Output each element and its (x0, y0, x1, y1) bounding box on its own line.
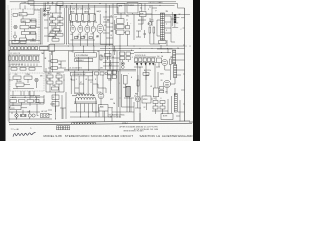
terminal box top (28, 1, 34, 4)
labels upper mid 2 (104, 12, 132, 38)
capacitor C15 (151, 16, 154, 26)
relay box K1 (49, 44, 55, 55)
svg-text:220: 220 (57, 79, 60, 81)
wire T1 secondary (157, 16, 174, 46)
wire mid horizontal bus (9, 10, 185, 123)
driver box U1 (140, 12, 147, 17)
wire control panel leads (27, 10, 41, 40)
resistor R31 (153, 27, 155, 33)
svg-text:20: 20 (105, 12, 107, 14)
wire channel B verticals (71, 71, 121, 107)
choke L1 (157, 58, 162, 67)
signature handwritten (13, 132, 36, 136)
wire bottom-left label row (9, 91, 44, 108)
triode section circle V5b (148, 18, 152, 25)
svg-text:+: + (128, 73, 129, 75)
wire extra preamp horizontals (9, 14, 100, 47)
svg-text:T2: T2 (177, 48, 179, 50)
svg-text:BIAS ADJ: BIAS ADJ (76, 59, 84, 62)
power transformer T3 lamination (74, 102, 97, 104)
svg-text:130: 130 (52, 85, 55, 87)
function selector S3 cluster (49, 18, 63, 42)
wire coil top area (93, 84, 106, 93)
resistor block R20 stack (124, 22, 130, 46)
svg-text:CH: CH (157, 56, 159, 58)
potentiometer VR7 TONE B (24, 76, 32, 82)
svg-text:.5: .5 (76, 79, 77, 81)
bias box (153, 88, 159, 100)
tube V4 6AN8 (91, 21, 95, 40)
tube V7 rectifier 5Y3 (98, 93, 104, 105)
svg-text:.25: .25 (138, 20, 140, 22)
wire pair horizontals chB (71, 80, 93, 88)
svg-text:MODEL 9-88 STEREOPHONIC SOUN: MODEL 9-88 STEREOPHONIC SOUND AMPLIFIER … (44, 134, 134, 138)
svg-text:50/50: 50/50 (108, 80, 112, 82)
svg-text:40: 40 (140, 8, 142, 10)
resistor R60 (170, 59, 172, 65)
svg-text:.05: .05 (110, 16, 112, 18)
tube V8 EL84 (163, 80, 170, 94)
svg-text:.002: .002 (70, 34, 73, 36)
wire jack leads (41, 3, 51, 45)
capacitor C60 block (52, 95, 59, 112)
svg-text:P: P (156, 11, 157, 13)
switch S5 (35, 78, 38, 88)
wire driver leads (134, 3, 152, 40)
fuse F1 (21, 114, 27, 117)
potentiometer VR2 BASS (21, 19, 30, 25)
resistor R13 (82, 15, 84, 21)
power transformer T3 primary coils (72, 94, 96, 104)
svg-text:470: 470 (104, 25, 107, 27)
wire upper-mid extra (103, 17, 116, 38)
wire bottom left (9, 92, 66, 119)
svg-text:TONE: TONE (26, 74, 30, 76)
wire below coils fill (93, 104, 99, 118)
filter capacitor row C30-C33 (134, 57, 156, 62)
label component values (10, 7, 183, 117)
wire tube row verticals (68, 4, 106, 47)
note box (161, 114, 173, 120)
svg-text:1K: 1K (110, 35, 112, 37)
svg-text:SANCTION LH ALCESTER ENGLAND: SANCTION LH ALCESTER ENGLAND (140, 134, 193, 138)
tube V1 6AV6 (70, 21, 75, 40)
svg-text:V8: V8 (161, 80, 163, 82)
resistor stack R61 (160, 87, 164, 93)
svg-text:.01: .01 (85, 34, 87, 36)
svg-text:150: 150 (101, 56, 104, 58)
svg-text:B: B (131, 77, 132, 79)
resistor R30 (149, 27, 151, 33)
input jack J1 (43, 9, 46, 12)
svg-text:6AV6: 6AV6 (70, 11, 74, 14)
resistor R14 (88, 15, 90, 21)
svg-text:SPKR: SPKR (143, 99, 148, 101)
svg-text:680: 680 (52, 37, 55, 39)
capacitor C40 row (9, 64, 43, 71)
speaker terminal block TB2 (172, 12, 179, 27)
svg-text:5H: 5H (161, 56, 163, 58)
wire bottom mid fill (48, 104, 66, 119)
svg-text:.01: .01 (78, 34, 80, 36)
svg-text:12: 12 (90, 82, 92, 84)
svg-text:OUTPUT TRANS: OUTPUT TRANS (149, 1, 164, 4)
svg-text:0.05: 0.05 (58, 21, 61, 23)
svg-text:8: 8 (95, 79, 96, 81)
resistor R12 (76, 15, 78, 21)
stamp table (57, 126, 70, 130)
wire right-mid extra horizontals (100, 45, 185, 53)
boxes inside panel lower (20, 38, 36, 43)
tube V2 6AV6 (78, 21, 83, 40)
terminal board TB1 (127, 3, 138, 13)
svg-text:LINE USE VTVM: LINE USE VTVM (109, 117, 122, 119)
svg-text:+: + (131, 23, 132, 25)
capacitor C16 (144, 30, 146, 38)
speaker SP1 (135, 96, 141, 108)
svg-text:270: 270 (165, 92, 168, 94)
svg-text:WWW STEREO PU NET: WWW STEREO PU NET (124, 131, 144, 133)
svg-text:L 174 2: L 174 2 (122, 123, 128, 125)
phase inverter cluster (46, 68, 64, 92)
extra pots inside panel A (12, 14, 36, 44)
svg-text:VOL: VOL (19, 14, 22, 16)
jack pair J3 (121, 62, 124, 68)
wire bottom border lines (9, 121, 192, 125)
svg-text:SP: SP (179, 14, 181, 16)
wire below chB panel (24, 91, 34, 100)
heater chain humps (72, 122, 96, 124)
balance pot VR5 (48, 60, 66, 70)
svg-text:.02 100K .005 470K .02 6.: .02 100K .005 470K .02 6.8K (69, 9, 90, 11)
svg-text:40: 40 (53, 97, 55, 99)
svg-text:LOUDNESS SW: LOUDNESS SW (72, 74, 86, 76)
wire B+ top bus (10, 2, 178, 8)
coupling caps under tubes (75, 36, 99, 39)
speaker box SP2 (142, 96, 151, 110)
capacitor C71 (113, 46, 115, 55)
wire mid verticals (106, 4, 113, 47)
svg-text:.02: .02 (57, 32, 59, 34)
input block AUX (57, 2, 63, 10)
wire T2 leads (170, 54, 185, 84)
wire selector leads (48, 5, 67, 44)
svg-text:B: B (131, 50, 132, 52)
switch S7 power (28, 114, 35, 117)
svg-text:6BQ5: 6BQ5 (48, 73, 52, 75)
dense cluster mid (107, 71, 116, 79)
wire right bus (184, 8, 186, 121)
capacitor C21 C22 (107, 20, 113, 32)
tube V5 6AQ5 output (97, 14, 103, 44)
svg-text:220: 220 (48, 79, 51, 81)
switch box S4 (117, 3, 125, 13)
svg-text:8: 8 (166, 30, 167, 32)
resistor R72 (137, 75, 139, 92)
svg-text:.5: .5 (132, 57, 133, 59)
wire right-of-ladder fills (157, 33, 175, 53)
svg-text:6BQ5: 6BQ5 (57, 73, 61, 75)
svg-text:VOL: VOL (15, 74, 18, 76)
svg-text:.01 .01 .01 .01 .01: .01 .01 .01 .01 .01 (11, 64, 24, 66)
winding label box (75, 53, 97, 62)
svg-text:AFTER VOLTAGES USED AT DC 117: AFTER VOLTAGES USED AT DC 117 P N TPS (120, 126, 159, 129)
svg-text:NOTE: NOTE (163, 116, 167, 118)
wire channel B panel (9, 80, 34, 89)
resistor R50 (100, 55, 102, 60)
bias network box (99, 105, 114, 118)
svg-text:16: 16 (154, 98, 156, 100)
wire bottom right (124, 88, 175, 121)
input jack J2 (43, 13, 46, 16)
node top bus junctions (72, 3, 161, 6)
tone network cluster (120, 52, 134, 62)
svg-text:47: 47 (80, 82, 82, 84)
svg-text:.05: .05 (105, 61, 107, 63)
node dots right-mid (109, 48, 168, 53)
svg-text:6AQ5: 6AQ5 (97, 10, 102, 13)
svg-text:40/40: 40/40 (123, 87, 127, 89)
terminal strip row TS1 (11, 47, 49, 50)
resistor R71 (143, 69, 149, 80)
wire transformer secondaries (70, 104, 112, 118)
wire mid area fills (103, 66, 134, 112)
wire bottom mid verticals (105, 98, 185, 121)
svg-text:25: 25 (126, 20, 128, 22)
svg-text:6.3V WINDING: 6.3V WINDING (76, 55, 89, 57)
resistor R11 (70, 15, 72, 21)
tall capacitor block (126, 86, 130, 97)
capacitor block C20 stack (117, 19, 125, 46)
potentiometer VR1 VOLUME (19, 9, 27, 19)
junction box bottom-left (37, 95, 45, 104)
svg-text:T1: T1 (166, 11, 168, 13)
capacitor C50 (109, 60, 112, 70)
wire driver area fill (136, 17, 146, 37)
wire mid-left verticals (44, 50, 64, 72)
vertical rect C70 (124, 75, 128, 86)
capacitor C7 C8 coupling (77, 36, 86, 37)
loudness box (64, 71, 136, 76)
switch panel box (10, 106, 21, 110)
potentiometer VR4 balance (22, 32, 30, 39)
svg-text:.02: .02 (85, 79, 87, 81)
output transformer T1 (160, 13, 164, 40)
potentiometer VR6 VOLUME B (13, 76, 21, 82)
AC receptacle P1 (41, 113, 49, 117)
svg-text:250: 250 (96, 37, 99, 39)
potentiometer VR3 TREBLE (20, 26, 29, 32)
node junctions (9, 44, 191, 122)
svg-text:B+ 275V: B+ 275V (144, 70, 152, 72)
svg-text:TONE: TONE (21, 2, 27, 4)
resistor R70 (105, 54, 112, 61)
resistor R15 (94, 15, 96, 21)
switch S2 (14, 32, 27, 43)
wire driver bottom (150, 5, 160, 44)
wire selector extra (44, 13, 62, 37)
svg-text:1 2 3 4 5 6 7 8: 1 2 3 4 5 6 7 8 (10, 53, 20, 55)
svg-text:.02 .05 100K 1M .5: .02 .05 100K 1M .5 (69, 68, 82, 70)
pilot lamp PL1 (15, 114, 19, 118)
svg-text:8+8: 8+8 (111, 23, 114, 25)
output network cluster (152, 99, 168, 114)
control panel box (dashed) channel A (12, 9, 40, 44)
svg-text:6AN8: 6AN8 (84, 11, 89, 14)
wire page-edge line (7, 5, 9, 121)
svg-text:7 Y = 46: 7 Y = 46 (11, 129, 20, 131)
potentiometer VR8 (16, 83, 30, 86)
svg-text:40: 40 (53, 103, 55, 105)
small boxes row mid (95, 72, 108, 75)
svg-text:5Y3: 5Y3 (98, 92, 101, 94)
wire top fills (20, 4, 150, 15)
svg-text:SEL: SEL (126, 16, 129, 18)
rectifier tube V6 (162, 60, 168, 71)
svg-text:4: 4 (166, 24, 167, 26)
selector switch S6 bank (9, 99, 44, 106)
terminal ladder T2 bottom section (174, 94, 177, 113)
svg-text:0.1: 0.1 (104, 19, 106, 21)
wire under boxes (114, 13, 190, 19)
rotary switch S1 (14, 25, 17, 28)
ground symbols top (47, 1, 54, 4)
svg-text:8: 8 (161, 98, 162, 100)
svg-text:50: 50 (104, 30, 106, 32)
wire mid verticals 2 (64, 46, 136, 118)
diode row D1-D5 (136, 63, 154, 65)
svg-text:.1: .1 (119, 83, 120, 85)
wire right mid (134, 62, 170, 121)
tube V3 6AN8 (85, 21, 90, 40)
control panel box (dashed) channel B (10, 73, 44, 91)
svg-text:20 20 20 20 40: 20 20 20 20 40 (135, 55, 145, 57)
svg-text:PHONO: PHONO (128, 5, 135, 7)
svg-text:.02: .02 (150, 86, 152, 88)
output transformer T2 (173, 50, 177, 78)
voltage divider row R40s (9, 55, 41, 62)
